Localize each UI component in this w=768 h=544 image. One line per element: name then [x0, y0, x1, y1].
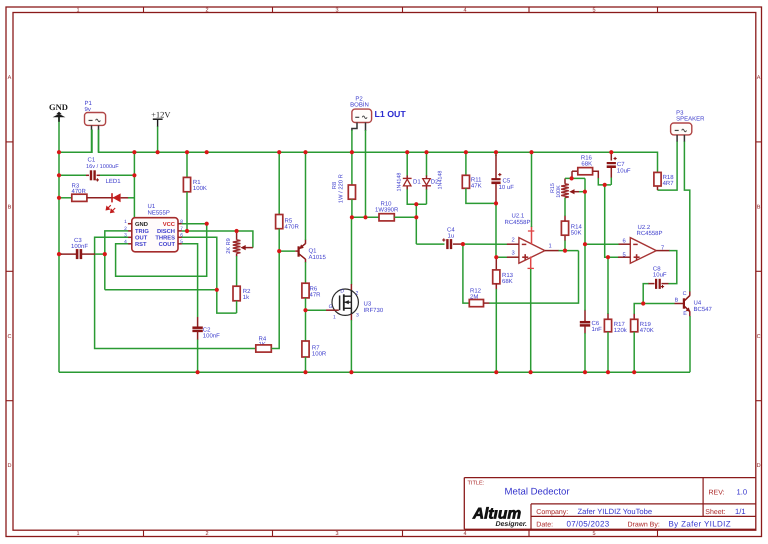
wire R6 bottom to gate node: [305, 298, 307, 310]
led LED1: [87, 178, 129, 213]
svg-text:C3: C3: [74, 237, 82, 244]
diode D1 1N4148: [397, 173, 422, 192]
resistor R3 470R: [72, 182, 87, 201]
wire R4 right to base column: [271, 251, 279, 348]
capacitor C7 10uF: [607, 152, 631, 178]
wire R2 bottom: [236, 301, 238, 313]
wire R14 bottom: [564, 240, 566, 251]
resistor R6 47R: [302, 283, 321, 298]
resistor R19 470K: [631, 313, 654, 334]
svg-text:RST: RST: [135, 241, 147, 248]
svg-text:120k: 120k: [614, 327, 628, 334]
wire P2 pin2 column: [365, 130, 367, 217]
svg-text:RC4558P: RC4558P: [637, 230, 663, 237]
wire Q1 collector to R6: [305, 262, 307, 283]
op-amp U2.1 RC4558P: [505, 212, 559, 269]
junction dots driver area: [277, 202, 418, 312]
wire R1 top: [186, 152, 188, 177]
wire R5 bottom to Q1 base: [279, 229, 295, 251]
wire output feedback loop: [489, 251, 579, 304]
wire VCC pin8 to rail column: [182, 223, 207, 225]
wire R8 bottom to drain node: [351, 199, 353, 217]
wire C8 left to base node: [643, 284, 648, 304]
wire DISCH pin7 row: [182, 230, 237, 232]
svg-text:B: B: [675, 298, 679, 304]
op-amp U2.2 RC4558P: [618, 224, 670, 263]
wire C7 node column to pin5: [605, 185, 619, 257]
svg-text:U1: U1: [148, 203, 156, 210]
svg-text:+12V: +12V: [151, 110, 171, 120]
wire U2.1 V+ to rail: [531, 152, 533, 227]
svg-text:A1015: A1015: [309, 254, 327, 261]
wire gate node to U3: [306, 309, 327, 311]
svg-text:NE555P: NE555P: [148, 210, 170, 217]
capacitor C5 10uF: [491, 155, 514, 204]
svg-text:A: A: [8, 75, 12, 81]
resistor R8 1W/220R: [331, 174, 356, 203]
svg-text:1.0: 1.0: [737, 487, 748, 496]
junction dots left column: [57, 173, 137, 256]
capacitor C3 100nF: [60, 237, 95, 259]
potentiometer R9 2K: [226, 231, 240, 257]
svg-text:THRES: THRES: [155, 235, 175, 242]
wire R9 wiper bracket: [237, 231, 253, 248]
svg-text:07/05/2023: 07/05/2023: [567, 519, 610, 528]
wire P1 pin1 to GND segment: [91, 130, 93, 153]
wire C5 node down to pin3: [496, 203, 507, 257]
svg-text:By Zafer YILDIZ: By Zafer YILDIZ: [669, 519, 731, 528]
title block: [464, 478, 756, 530]
svg-text:E: E: [683, 311, 687, 317]
capacitor C2 100nF: [192, 317, 220, 340]
svg-text:10uF: 10uF: [653, 272, 667, 279]
svg-text:P1: P1: [85, 100, 93, 107]
wire ground bottom rail: [59, 371, 690, 373]
resistor R12 2M: [469, 287, 489, 306]
wire R9 to R2: [236, 256, 238, 286]
wire R17 to ground rail: [607, 332, 609, 372]
mosfet U3 IRF730: [326, 284, 384, 321]
svg-text:C4: C4: [447, 227, 455, 234]
svg-text:R10: R10: [381, 201, 393, 208]
resistor R1 100K: [183, 177, 207, 192]
svg-text:100nF: 100nF: [203, 333, 220, 340]
wire wiper column: [584, 178, 586, 244]
svg-text:R19: R19: [640, 321, 652, 328]
connector P3 SPEAKER: [671, 109, 706, 141]
svg-text:Designer.: Designer.: [495, 520, 527, 528]
resistor R17 120k: [604, 313, 627, 334]
wire R3 left: [59, 197, 72, 199]
svg-text:Metal Dedector: Metal Dedector: [505, 487, 571, 498]
wire R15 top row: [565, 177, 585, 179]
potentiometer R15 100K: [550, 178, 569, 197]
svg-text:4R7: 4R7: [663, 180, 675, 187]
wire C4 to pin2 row: [463, 243, 508, 245]
wire R19 to ground rail: [633, 332, 635, 372]
junction dots 555 area: [103, 222, 239, 292]
svg-text:C6: C6: [592, 320, 600, 327]
svg-text:R11: R11: [471, 177, 482, 184]
svg-text:4: 4: [463, 531, 466, 537]
resistor R7 100R: [302, 341, 327, 357]
wire OUT pin3 wire: [95, 237, 256, 348]
svg-text:5: 5: [623, 253, 626, 259]
svg-text:R2: R2: [243, 288, 251, 295]
svg-text:U2.2: U2.2: [638, 224, 651, 231]
resistor R14 50K: [561, 216, 582, 241]
svg-text:2K R9: 2K R9: [226, 238, 232, 254]
wire +12V stub to rail: [157, 126, 159, 152]
wire R13 to ground rail: [495, 289, 497, 372]
svg-text:2: 2: [205, 8, 208, 14]
svg-text:D: D: [340, 289, 344, 295]
svg-text:1: 1: [76, 531, 79, 537]
svg-text:10 uF: 10 uF: [499, 184, 515, 191]
capacitor C8 10uF: [648, 265, 669, 289]
svg-text:1nF: 1nF: [592, 326, 603, 333]
wire R7 to ground rail: [305, 357, 307, 372]
svg-text:2: 2: [205, 531, 208, 537]
svg-text:1: 1: [124, 219, 127, 225]
svg-text:BOBİN: BOBİN: [350, 101, 369, 109]
svg-text:U4: U4: [694, 299, 702, 306]
svg-text:LED1: LED1: [106, 178, 122, 185]
wire drain column to U3: [351, 217, 353, 284]
wire R10 right: [394, 216, 416, 218]
resistor R4 1K: [256, 335, 271, 352]
svg-text:C: C: [8, 334, 12, 340]
wire D1 top: [406, 152, 408, 176]
svg-text:470R: 470R: [285, 223, 300, 230]
junction dots gain stage: [563, 176, 645, 305]
wire R11 top: [465, 152, 467, 175]
svg-text:C7: C7: [617, 161, 625, 168]
wire P2 pin1 column to rail and R8: [351, 130, 353, 185]
resistor R10 1W390R: [375, 201, 399, 221]
svg-text:3: 3: [356, 312, 359, 318]
svg-text:P3: P3: [676, 109, 684, 116]
svg-text:TRIG: TRIG: [135, 228, 149, 235]
svg-text:100nF: 100nF: [71, 243, 88, 250]
svg-text:4: 4: [463, 8, 466, 14]
wire U3 source to ground rail: [350, 320, 352, 372]
connector P2 BOBIN: [350, 95, 371, 131]
svg-text:5: 5: [592, 531, 595, 537]
wire U2.1 output row: [559, 250, 579, 252]
resistor R2 1k: [233, 286, 251, 301]
capacitor C6 1nF: [580, 310, 602, 334]
svg-text:Company:: Company:: [536, 509, 568, 516]
svg-text:Altıum: Altıum: [472, 506, 521, 523]
junction dots input filter: [461, 201, 499, 259]
capacitor C4 1u: [442, 227, 463, 250]
svg-text:1: 1: [333, 315, 336, 321]
wire C2 to ground rail: [197, 340, 199, 373]
svg-text:R6: R6: [310, 286, 318, 293]
svg-text:68K: 68K: [581, 161, 592, 168]
svg-text:L1 OUT: L1 OUT: [375, 109, 407, 119]
svg-text:D2: D2: [431, 178, 439, 185]
wire U4 emitter to ground rail: [689, 316, 691, 372]
wire Q1 emitter to rail: [305, 152, 307, 240]
wire R15 wiper to column: [569, 189, 585, 194]
svg-text:6: 6: [623, 238, 626, 245]
svg-text:R13: R13: [502, 272, 514, 279]
svg-text:R7: R7: [312, 344, 320, 351]
connector P1 9v: [85, 100, 106, 130]
wire C1 left: [59, 174, 86, 176]
svg-text:3: 3: [512, 250, 515, 257]
Altium Designer logo: [472, 506, 527, 529]
wire drain node row: [352, 216, 379, 218]
wire gate node down to R7: [305, 310, 307, 341]
svg-text:SPEAKER: SPEAKER: [676, 116, 705, 123]
svg-text:68K: 68K: [502, 278, 513, 285]
svg-text:Q1: Q1: [309, 248, 318, 255]
wire VCC/RST pullup column: [116, 224, 207, 277]
wire R16 right to C7 node: [598, 178, 611, 185]
svg-text:R1: R1: [193, 179, 201, 186]
svg-text:10uF: 10uF: [617, 167, 631, 174]
svg-text:5: 5: [592, 8, 595, 14]
svg-text:R5: R5: [285, 217, 293, 224]
wire base node to U4: [643, 303, 674, 305]
resistor R18 4R7: [654, 172, 674, 190]
svg-text:C1: C1: [88, 157, 96, 164]
svg-text:B: B: [8, 205, 12, 211]
wire P1 pin2 to +12V rail: [98, 130, 100, 153]
svg-text:16v / 1000uF: 16v / 1000uF: [86, 163, 119, 170]
svg-text:Drawn By:: Drawn By:: [628, 521, 660, 528]
svg-text:B: B: [757, 205, 761, 211]
svg-text:REV:: REV:: [709, 489, 725, 496]
wire C7 bottom to node: [610, 178, 612, 185]
transistor U4 BC547: [675, 291, 713, 317]
wire TRIG-THRES link row: [105, 289, 217, 291]
wire U2.2 output to C8: [669, 251, 677, 284]
wire THRES pin6 wire: [182, 237, 237, 313]
svg-text:C2: C2: [203, 327, 211, 334]
svg-text:100K: 100K: [193, 185, 207, 192]
wire C3 left: [59, 253, 62, 255]
wire C4 node down to R12: [463, 244, 469, 303]
junction dots ground rail: [196, 370, 637, 374]
svg-text:100R: 100R: [312, 350, 327, 357]
svg-text:2: 2: [512, 237, 515, 244]
wire U2.1 V- to ground rail: [530, 269, 532, 372]
svg-text:R16: R16: [581, 155, 593, 162]
svg-text:1u: 1u: [448, 233, 455, 240]
svg-text:470K: 470K: [640, 327, 654, 334]
svg-text:DISCH: DISCH: [157, 228, 175, 235]
svg-text:7: 7: [661, 245, 664, 251]
svg-text:GND: GND: [135, 221, 148, 228]
wire U4 collector to speaker: [684, 141, 689, 292]
svg-text:C: C: [757, 334, 761, 340]
svg-text:R12: R12: [470, 287, 482, 294]
wire C6 top column: [584, 244, 586, 310]
wire LED to column: [128, 197, 134, 199]
svg-text:A: A: [757, 75, 761, 81]
svg-text:R8: R8: [331, 182, 338, 189]
wire COUT pin5 wire to C2: [182, 244, 198, 317]
svg-text:Date:: Date:: [536, 521, 553, 528]
transistor Q1 A1015: [295, 240, 326, 263]
svg-text:COUT: COUT: [159, 241, 176, 248]
wire C5 top: [495, 152, 497, 156]
svg-text:P2: P2: [355, 95, 363, 102]
wire D2 top: [426, 152, 428, 176]
svg-text:D: D: [8, 463, 12, 469]
wire C1 right: [99, 174, 134, 176]
wire diode node down: [415, 204, 417, 244]
svg-text:1W390R: 1W390R: [375, 207, 399, 214]
svg-text:1N4148: 1N4148: [397, 173, 403, 192]
svg-text:1W / 220 R: 1W / 220 R: [338, 174, 345, 203]
wire R11 bottom row: [466, 188, 496, 203]
power symbol +12V: [151, 110, 171, 127]
svg-text:3: 3: [335, 8, 338, 14]
wire R9 wiper arrow: [241, 245, 253, 250]
svg-text:OUT: OUT: [135, 235, 148, 242]
wire TRIG pin2 wire: [105, 231, 128, 290]
op-amp timer U1 NE555P: [124, 203, 183, 252]
svg-text:U2.1: U2.1: [512, 212, 525, 219]
svg-text:IRF730: IRF730: [364, 307, 384, 314]
wire C3 right: [94, 253, 105, 255]
svg-text:C: C: [683, 291, 687, 297]
ground symbol GND: [49, 102, 68, 122]
wire +12V rail: [99, 130, 658, 173]
wire D2 bottom: [426, 189, 428, 204]
wire C6 to ground rail: [584, 333, 586, 372]
wire D1 bottom: [407, 189, 426, 204]
svg-text:1k: 1k: [243, 294, 250, 301]
resistor R11 47K: [462, 175, 482, 189]
wire C1/LED column to U1 top: [133, 152, 135, 218]
svg-text:U3: U3: [364, 301, 372, 308]
junction dots top rail: [57, 150, 614, 154]
wire GND left column: [58, 117, 60, 372]
resistor R13 68K: [493, 257, 514, 290]
svg-text:BC547: BC547: [694, 306, 713, 313]
svg-text:Zafer YILDIZ YouTobe: Zafer YILDIZ YouTobe: [578, 507, 653, 516]
resistor R16 68K: [572, 155, 598, 180]
svg-text:D1: D1: [413, 178, 421, 185]
svg-text:VCC: VCC: [163, 221, 176, 228]
wire speaker left to R18: [658, 141, 678, 190]
wire pin6 row: [585, 243, 619, 245]
svg-text:R18: R18: [663, 174, 675, 181]
label L1 OUT: [375, 109, 407, 119]
wire GND net top-left segment: [59, 130, 92, 153]
wire pin5 node to R17: [607, 257, 609, 314]
svg-text:2: 2: [356, 291, 359, 297]
svg-text:3: 3: [335, 531, 338, 537]
wire R1 bottom to DISCH: [186, 192, 188, 231]
svg-text:47R: 47R: [310, 292, 322, 299]
resistor R5 470R: [276, 215, 300, 231]
svg-text:R14: R14: [571, 223, 583, 230]
diode D2 1N4148: [422, 171, 443, 190]
svg-text:R15: R15: [550, 183, 556, 193]
svg-text:C5: C5: [503, 178, 511, 185]
svg-text:RC4558P: RC4558P: [505, 219, 531, 226]
svg-text:GND: GND: [49, 102, 68, 112]
svg-text:R17: R17: [614, 321, 626, 328]
wire base node to R19: [634, 304, 643, 315]
svg-text:1: 1: [549, 244, 552, 250]
wire R5 top: [278, 152, 280, 214]
svg-text:C8: C8: [653, 265, 661, 272]
wire R14 to R15: [564, 198, 566, 217]
svg-text:Sheet:: Sheet:: [705, 508, 725, 516]
svg-text:D: D: [757, 463, 761, 469]
wire C4 row left: [416, 243, 444, 245]
svg-text:1: 1: [76, 8, 79, 14]
svg-text:G: G: [329, 304, 333, 310]
svg-text:1/1: 1/1: [735, 507, 746, 516]
svg-text:47K: 47K: [471, 183, 482, 190]
svg-text:TITLE:: TITLE:: [468, 481, 485, 487]
svg-text:50K: 50K: [571, 229, 582, 236]
capacitor C1 16v/1000uF: [86, 157, 119, 182]
